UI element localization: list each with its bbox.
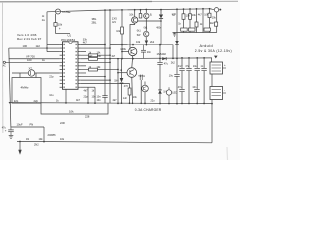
wire drop x95 [94, 87, 96, 103]
wire pinR10 [81, 76, 105, 78]
svg-text:Rev 2.01 Feb 97: Rev 2.01 Feb 97 [17, 37, 42, 41]
wire MCLR pin1 [47, 44, 60, 46]
svg-text:470: 470 [124, 85, 129, 88]
component stub x140 [140, 9, 142, 11]
wire Q2-Q3 [131, 56, 134, 68]
wire pin3 row from rail [47, 51, 60, 53]
IC U1 left pin stubs [60, 45, 63, 88]
fuse F1 [56, 9, 61, 14]
wire pinR4 [81, 54, 110, 56]
capacitor C bottom [10, 127, 12, 130]
svg-text:22p: 22p [34, 99, 39, 103]
wire Q1-Q2 jog [130, 23, 135, 48]
wire R220 drop [129, 95, 131, 103]
capacitor on bus A [103, 96, 108, 98]
resistor pinR5 [89, 58, 98, 61]
svg-text:0k1: 0k1 [137, 30, 142, 33]
diode mark above J1 [214, 56, 218, 59]
wire output column 3 [196, 58, 198, 104]
svg-text:TIP31: TIP31 [138, 75, 145, 78]
diode D3 row y58 triangle [162, 57, 166, 60]
wire mid ground bus [9, 103, 212, 104]
wire bottom bus [17, 141, 212, 142]
svg-text:100k: 100k [120, 47, 126, 51]
transistor Q6 lower [144, 31, 149, 36]
wire Q4 down [144, 92, 146, 104]
svg-text:4MHz: 4MHz [21, 86, 30, 90]
resistor on x122 [121, 27, 124, 34]
svg-text:47u: 47u [2, 127, 7, 130]
wire vertical bus A [104, 10, 106, 103]
svg-text:22R: 22R [60, 121, 65, 125]
wire ladder drop 3 [189, 9, 191, 33]
wire pinR5 main row [81, 57, 212, 60]
capacitor on x177 [175, 74, 180, 76]
wire right rail lower [211, 100, 213, 143]
wire ladder bottom rail [173, 32, 217, 34]
wire rail to output bus [176, 33, 178, 58]
crystal Y1 [28, 70, 34, 76]
svg-text:0-3A CHARGER: 0-3A CHARGER [135, 108, 162, 112]
svg-text:10k: 10k [136, 40, 141, 44]
svg-text:4k7: 4k7 [83, 41, 88, 44]
oscillator box [12, 78, 41, 104]
wire pinR1 [81, 44, 105, 46]
wire vertical x177 [176, 58, 178, 103]
IC U1 right pin stubs [78, 45, 81, 88]
svg-text:1k2: 1k2 [36, 44, 41, 48]
diode D6 x121 [121, 59, 123, 78]
wire output column 4 [203, 58, 205, 104]
labels ladder [172, 14, 216, 26]
svg-text:4k7: 4k7 [84, 89, 89, 92]
wire pinR12 long [81, 84, 130, 88]
svg-text:10u: 10u [169, 75, 174, 78]
svg-text:2BL: 2BL [92, 20, 97, 24]
resistor R220 [128, 88, 131, 95]
wire left rail from fuse [46, 12, 48, 52]
transistor Q2 [129, 47, 137, 55]
wire pin6 row [5, 61, 59, 63]
wire pinR6 [81, 61, 110, 63]
wire transistor chain top [134, 10, 136, 17]
wire Q6 down [145, 37, 147, 41]
svg-text:400v: 400v [156, 27, 162, 29]
svg-text:4m7: 4m7 [178, 65, 183, 68]
wire pinR7 stub [81, 65, 86, 67]
capacitors output row2 [179, 89, 199, 92]
wire pin5 row [9, 58, 60, 60]
svg-text:22p: 22p [84, 96, 89, 99]
diode D2 on x160 [158, 90, 162, 94]
svg-text:10n: 10n [147, 51, 152, 54]
svg-text:47u: 47u [164, 63, 169, 66]
svg-text:2k2: 2k2 [150, 40, 155, 44]
wire to terminal [210, 9, 215, 10]
svg-text:FUSE: FUSE [63, 10, 71, 14]
svg-text:2N3055: 2N3055 [48, 135, 57, 137]
svg-text:4k7: 4k7 [198, 14, 203, 17]
wire ladder drop 6 [209, 9, 211, 33]
svg-text:10u: 10u [193, 65, 198, 68]
diode D1 vertical [160, 10, 162, 15]
svg-text:47u: 47u [178, 86, 183, 89]
resistor ladder R row2 a [181, 28, 188, 31]
wire left rail lower [9, 48, 11, 127]
page top edge line [0, 1, 152, 3]
wire crystal stub a [19, 73, 21, 78]
wire pinR2 [81, 47, 110, 49]
IC U1 body [63, 42, 79, 90]
svg-text:22u: 22u [151, 99, 156, 102]
svg-text:-: - [224, 89, 225, 93]
wire Q1 to diode [138, 20, 161, 22]
wire crystal row [12, 72, 60, 74]
labels output caps row1 [178, 65, 204, 68]
svg-text:100: 100 [23, 44, 28, 48]
svg-text:228: 228 [85, 115, 90, 119]
svg-text:1uF: 1uF [123, 97, 128, 100]
wire ladder drop 4 [196, 9, 198, 33]
page shadow bottom right [226, 147, 229, 160]
wire y127 row [11, 126, 44, 128]
diode D5 on x177 [175, 41, 179, 44]
terminal dot [219, 9, 221, 11]
capacitor C x143 [143, 45, 145, 51]
svg-text:4k7: 4k7 [113, 99, 118, 102]
svg-text:22p: 22p [49, 75, 54, 78]
capacitors output row1 [179, 68, 207, 71]
terminal output circle [214, 8, 218, 12]
resistor pinR4 [89, 54, 98, 57]
connector J1 [210, 62, 223, 74]
wire ladder drop 2 [183, 9, 185, 32]
connector J2 [210, 87, 223, 100]
transistor Q1 [132, 17, 138, 23]
wire Q2 base [122, 51, 129, 53]
arrow to battery [19, 141, 21, 150]
wire right rail upper [211, 58, 213, 62]
wire Q5 mid [145, 19, 147, 32]
wire ladder drop 5 [202, 9, 204, 33]
transistor Q4 small [142, 85, 149, 92]
labels output caps row2 [178, 86, 197, 89]
transistor Q3 [127, 68, 137, 78]
svg-text:Arduid: Arduid [200, 44, 214, 48]
svg-text:2k2: 2k2 [210, 22, 215, 25]
svg-text:10k: 10k [58, 23, 63, 27]
resistor ladder R c [195, 22, 198, 27]
wire vertical x118 [117, 59, 119, 104]
wire terminal drop [216, 12, 218, 22]
svg-text:LED: LED [172, 92, 177, 95]
svg-text:10k: 10k [69, 109, 74, 113]
svg-text:10n: 10n [97, 99, 102, 102]
wire Q3 base [118, 72, 127, 74]
wire pin13 row [81, 86, 95, 88]
loop below bus [41, 103, 108, 114]
wire output column 1 [181, 58, 183, 104]
ground ladder rail [174, 33, 176, 34]
wire corner x173 [172, 45, 174, 59]
svg-text:1N: 1N [26, 138, 29, 141]
IC U1 pin numbers [63, 44, 77, 88]
resistor ladder R a [182, 14, 185, 19]
resistor on terminal drop [215, 22, 218, 26]
svg-text:22p: 22p [14, 99, 19, 103]
wire drop x44 [43, 127, 45, 142]
svg-text:2w: 2w [42, 20, 45, 22]
svg-text:PN: PN [30, 123, 34, 127]
svg-text:10uF: 10uF [17, 123, 23, 127]
wire Q3 down [131, 77, 134, 103]
capacitor on x160 [158, 62, 163, 64]
wire fuse column [55, 14, 57, 34]
wire mid row y45 [110, 44, 173, 46]
svg-text:PIC16F84: PIC16F84 [61, 38, 75, 42]
page left edge line [1, 2, 4, 133]
svg-text:10n: 10n [192, 86, 197, 89]
ground bottom left [9, 134, 14, 136]
svg-text:2k2: 2k2 [171, 61, 176, 64]
wire right rail mid [211, 74, 213, 87]
wire drop x122 [121, 10, 123, 59]
svg-text:1N4: 1N4 [114, 80, 119, 83]
wire top positive bus [47, 9, 212, 12]
svg-text:47u: 47u [185, 65, 190, 68]
wire ladder drop 1 [176, 9, 178, 32]
svg-text:100: 100 [27, 58, 32, 62]
wire vertical bus B [109, 10, 111, 103]
resistor top of drop6 [208, 13, 211, 17]
wire pinR3 stub [81, 51, 86, 53]
wire x141 cap drop [140, 80, 142, 103]
wire to IC top [56, 33, 71, 35]
resistor ladder R b [189, 14, 192, 19]
wire pinR9 stub [81, 72, 86, 74]
node input terminal [3, 61, 5, 63]
svg-text:2.5v & 30A (12-15v): 2.5v & 30A (12-15v) [195, 49, 232, 53]
wire pinR11 [81, 79, 110, 81]
wire Q4 up [144, 82, 146, 86]
wire drop x88 [87, 87, 89, 103]
resistor pinR8 [89, 68, 98, 71]
svg-text:4k7: 4k7 [76, 99, 81, 102]
svg-text:+: + [224, 63, 226, 67]
node rail-bus junction [9, 102, 11, 104]
wire output column 2 [188, 58, 190, 104]
resistor ladder R row2 b [189, 28, 196, 31]
diode wedge above wire [145, 41, 148, 45]
svg-text:2N2: 2N2 [34, 143, 39, 146]
svg-text:XT: XT [29, 67, 33, 71]
svg-text:VP 700: VP 700 [26, 55, 35, 59]
wire IC Vss drop [65, 89, 67, 103]
capacitor near Q3 [139, 75, 141, 81]
svg-text:AC: AC [3, 64, 7, 67]
wire pinR8 [81, 68, 118, 70]
svg-text:B,: B, [150, 14, 153, 16]
svg-text:4k7: 4k7 [89, 55, 94, 58]
svg-text:1N5402: 1N5402 [157, 52, 167, 56]
wire vertical x160 [159, 45, 161, 104]
transistor Q5 upper [145, 9, 147, 13]
resistor ladder R row2 c [204, 28, 211, 31]
svg-text:+: + [59, 27, 61, 31]
wire crystal stub b [35, 73, 37, 78]
LED D4 [168, 87, 170, 90]
svg-text:10u: 10u [49, 94, 54, 97]
svg-text:10n: 10n [97, 95, 102, 98]
svg-text:HV: HV [112, 20, 116, 24]
wire pin2 row [9, 47, 60, 49]
node arrow junction [19, 141, 21, 143]
resistor R1 [54, 23, 57, 27]
